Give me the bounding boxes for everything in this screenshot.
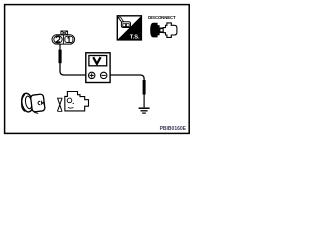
T.S. tester icon <box>117 16 141 41</box>
wire: voltmeter minus terminal to ground <box>110 75 146 107</box>
voltmeter minus terminal <box>101 72 107 78</box>
svg-text:T.S.: T.S. <box>130 35 140 41</box>
engine location drawing <box>57 92 89 112</box>
terminal 2 (probed, circled) <box>54 36 62 43</box>
terminal 1 <box>65 36 73 42</box>
ground <box>139 108 150 113</box>
connector E1 (2-pin, harness side view) <box>52 31 75 44</box>
svg-text:PBIB0160E: PBIB0160E <box>160 126 187 132</box>
voltmeter V1 <box>86 53 110 83</box>
camshaft position sensor drawing <box>20 92 45 113</box>
svg-text:DISCONNECT: DISCONNECT <box>148 15 176 20</box>
voltmeter plus terminal <box>89 72 95 78</box>
DISCONNECT icon <box>148 15 177 38</box>
wire: connector pin 2 to voltmeter plus terminal <box>59 44 86 75</box>
